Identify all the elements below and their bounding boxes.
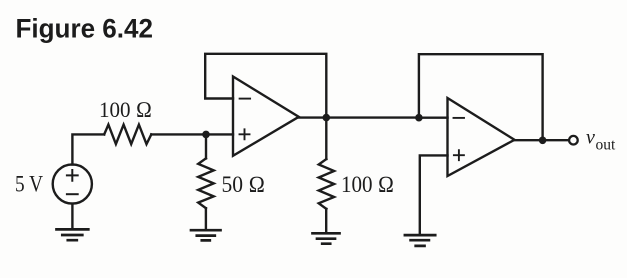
resistor R2	[198, 158, 214, 208]
node U1 output	[323, 114, 331, 122]
wire R3 to ground	[325, 209, 327, 233]
op-amp U1 plus pin label	[240, 129, 250, 139]
node U2 output	[539, 137, 547, 145]
ground under R2	[191, 230, 221, 240]
terminal vout	[569, 136, 578, 145]
resistor R3	[319, 159, 334, 209]
ground under R3	[313, 233, 340, 243]
op-amp U1 minus pin label	[240, 98, 251, 100]
op-amp U2	[448, 98, 515, 176]
node A junction	[202, 131, 210, 139]
wire R1 to op-amp U1 + input	[151, 133, 233, 135]
wire source top to R1	[72, 134, 104, 164]
voltage source V1 5V	[53, 164, 92, 203]
ground at U2 plus input	[405, 235, 435, 246]
wire U2 plus input to ground	[420, 155, 448, 234]
wire node A down to R2	[205, 134, 207, 158]
ground under V1	[57, 229, 89, 240]
op-amp U2 plus pin label	[454, 150, 464, 160]
op-amp U2 minus pin label	[454, 117, 465, 119]
wire node B to U2 minus input	[419, 116, 448, 118]
wire source bottom to ground	[71, 204, 73, 229]
svg-text:Figure 6.42: Figure 6.42	[16, 13, 154, 43]
svg-text:v: v	[586, 127, 595, 149]
feedback wire U2	[419, 54, 543, 140]
feedback wire U1	[205, 54, 326, 118]
wire U1 output	[299, 116, 327, 118]
op-amp U1	[233, 77, 299, 156]
wire U2 output	[515, 139, 570, 141]
svg-text:5 V: 5 V	[15, 172, 43, 197]
wire node to node B	[326, 116, 419, 118]
svg-text:50 Ω: 50 Ω	[222, 172, 266, 197]
resistor R1	[104, 125, 151, 145]
svg-text:out: out	[596, 137, 617, 154]
wire R2 to ground	[205, 208, 207, 230]
svg-text:100 Ω: 100 Ω	[99, 97, 152, 122]
node B U2 minus input	[415, 114, 423, 122]
svg-text:100 Ω: 100 Ω	[341, 172, 394, 197]
wire node down to R3	[325, 118, 327, 159]
